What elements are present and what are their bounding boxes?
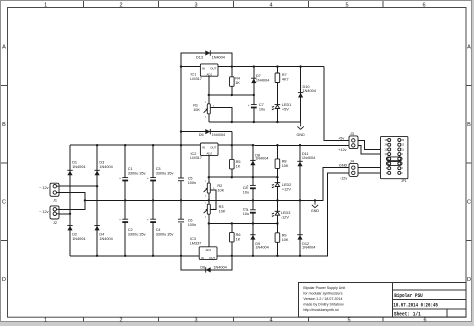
svg-text:1N4004: 1N4004 — [212, 56, 225, 60]
frame row labels right — [467, 45, 471, 284]
frame column ticks bottom — [84, 317, 384, 321]
wire R2/R3 wiper link — [210, 190, 216, 210]
svg-text:JP1: JP1 — [401, 179, 407, 183]
svg-text:LM337: LM337 — [190, 241, 202, 245]
wire D3/D4 column — [96, 145, 98, 256]
svg-text:10K: 10K — [217, 189, 224, 193]
capacitor C2 — [122, 219, 128, 223]
svg-text:ADJ: ADJ — [206, 72, 212, 76]
wire R8/LED2/LED3/R9 column — [276, 145, 278, 256]
diode D4 — [94, 226, 99, 231]
ground (center rail) — [311, 200, 320, 213]
wire -12V output rail to J4 — [217, 173, 353, 256]
svg-text:C: C — [2, 200, 6, 206]
svg-text:4: 4 — [269, 318, 272, 324]
svg-text:R7: R7 — [282, 73, 287, 77]
svg-text:C6: C6 — [188, 218, 193, 222]
title block — [299, 283, 467, 318]
capacitor C4 — [150, 219, 156, 223]
svg-text:C2: C2 — [128, 228, 133, 232]
svg-text:3300u 35v: 3300u 35v — [156, 232, 174, 236]
svg-text:C1: C1 — [128, 167, 133, 171]
potentiometer R1 — [204, 104, 211, 114]
svg-text:3300u 35v: 3300u 35v — [156, 172, 174, 176]
resistor R5 — [230, 159, 235, 169]
svg-text:C5: C5 — [188, 177, 193, 181]
svg-text:1N4004: 1N4004 — [303, 89, 316, 93]
wire unregulated positive rail — [70, 144, 200, 146]
svg-text:IN: IN — [202, 66, 205, 70]
svg-text:1N4004: 1N4004 — [99, 165, 112, 169]
resistor R7 — [275, 73, 280, 83]
svg-text:1N4004: 1N4004 — [99, 237, 112, 241]
ground (top section) — [296, 122, 305, 137]
svg-text:C4: C4 — [156, 228, 161, 232]
capacitor C3 — [150, 178, 156, 182]
diode D11 — [297, 161, 302, 166]
wire ADJ node horizontal — [209, 94, 254, 96]
wire C3/C4 column — [152, 145, 154, 256]
svg-text:C8: C8 — [243, 186, 248, 190]
wire D1/D2 column — [69, 145, 71, 256]
svg-text:for modular synthesizers: for modular synthesizers — [303, 292, 342, 296]
LED2 — [272, 183, 281, 189]
svg-text:OUT: OUT — [210, 145, 216, 149]
svg-text:LED3: LED3 — [281, 211, 291, 215]
svg-text:GND: GND — [339, 164, 348, 168]
connector J4 — [349, 160, 358, 177]
wire C5/C6 column — [181, 53, 232, 270]
wire IC2 ADJ column through pots — [208, 155, 210, 246]
svg-text:1N4004: 1N4004 — [302, 245, 315, 249]
svg-text:-12V: -12V — [281, 216, 289, 220]
op-amp regulator IC3 LM337 — [190, 237, 217, 260]
frame row labels left — [2, 45, 6, 284]
svg-text:+12V: +12V — [282, 187, 291, 191]
svg-text:D: D — [467, 277, 471, 283]
svg-text:A: A — [2, 45, 6, 51]
svg-text:+: + — [147, 176, 149, 180]
svg-text:J4: J4 — [350, 160, 354, 164]
wire D8/C8/C9/D9 column — [252, 145, 254, 256]
svg-text:~ 12v: ~ 12v — [39, 210, 48, 214]
svg-text:4: 4 — [269, 2, 272, 8]
wire D10 column — [300, 67, 302, 122]
svg-text:D6: D6 — [200, 265, 205, 269]
svg-text:R8: R8 — [282, 160, 287, 164]
svg-text:GND: GND — [311, 209, 320, 213]
wire IC1 input — [181, 66, 200, 68]
svg-text:1K: 1K — [236, 165, 241, 169]
diode D2 — [67, 226, 72, 231]
svg-text:6: 6 — [422, 2, 425, 8]
svg-text:3300u 35v: 3300u 35v — [128, 232, 146, 236]
wire +12V ADJ rail — [209, 176, 278, 178]
svg-text:3: 3 — [194, 318, 197, 324]
svg-text:2: 2 — [119, 2, 122, 8]
svg-text:J1: J1 — [53, 199, 57, 203]
wire R6 column — [231, 224, 233, 256]
capacitor C6 — [178, 219, 184, 222]
svg-text:GND: GND — [296, 133, 305, 137]
svg-text:1K: 1K — [236, 238, 241, 242]
diode D9 — [250, 235, 255, 240]
svg-text:10K: 10K — [219, 210, 226, 214]
svg-text:ADJ: ADJ — [205, 248, 211, 252]
wire +5v feed to J3 — [324, 67, 353, 141]
wire R1 bottom — [208, 114, 210, 122]
potentiometer R3 — [204, 204, 211, 214]
svg-text:D13: D13 — [196, 56, 203, 60]
frame row ticks left — [1, 86, 8, 241]
svg-text:J3: J3 — [350, 132, 354, 136]
svg-text:R9: R9 — [282, 234, 287, 238]
svg-text:C3: C3 — [156, 167, 161, 171]
diode D3 — [94, 170, 99, 175]
diode D6 — [206, 267, 211, 272]
wire R5 column — [231, 132, 233, 178]
svg-text:C7: C7 — [259, 103, 264, 107]
wire D13 bypass loop — [181, 53, 232, 67]
svg-text:+: + — [119, 218, 121, 222]
wire D7/C7 column — [253, 67, 255, 122]
wire R7/LED1 column — [276, 67, 278, 122]
svg-text:ADJ: ADJ — [206, 152, 212, 156]
svg-text:http://modularsynth.ru/: http://modularsynth.ru/ — [303, 308, 339, 312]
svg-text:Bipolar Power Supply Unit: Bipolar Power Supply Unit — [303, 286, 345, 290]
svg-text:1N4004: 1N4004 — [255, 245, 268, 249]
wire J1 pin1 to bridge — [59, 185, 97, 187]
svg-text:R6: R6 — [236, 233, 241, 237]
svg-text:Bipolar PSU: Bipolar PSU — [394, 292, 423, 299]
diode D12 — [297, 235, 302, 240]
svg-text:~ 12v: ~ 12v — [39, 186, 48, 190]
capacitor C7 — [251, 105, 257, 109]
svg-text:3300u 35v: 3300u 35v — [128, 172, 146, 176]
svg-text:IN: IN — [201, 256, 204, 260]
svg-text:R2: R2 — [217, 184, 222, 188]
svg-text:10u: 10u — [243, 212, 249, 216]
diode D7 — [251, 78, 256, 83]
svg-text:made by Dmitry Shtatnov: made by Dmitry Shtatnov — [303, 302, 344, 306]
svg-text:R3: R3 — [219, 205, 224, 209]
svg-text:1N4004: 1N4004 — [72, 165, 85, 169]
svg-text:OUT: OUT — [210, 66, 216, 70]
resistor R8 — [275, 159, 280, 169]
svg-text:B: B — [2, 122, 6, 128]
svg-text:C9: C9 — [243, 208, 248, 212]
resistor R6 — [230, 232, 235, 242]
svg-text:10u: 10u — [259, 107, 265, 111]
svg-text:100n: 100n — [188, 181, 196, 185]
svg-text:10K: 10K — [193, 108, 200, 112]
wire J4 pin1 to JP1 — [358, 167, 390, 169]
diode D10 — [298, 93, 303, 98]
svg-text:R1: R1 — [193, 104, 198, 108]
svg-text:R5: R5 — [236, 160, 241, 164]
svg-text:+: + — [119, 176, 121, 180]
potentiometer R2 — [204, 183, 211, 193]
svg-text:1N4004: 1N4004 — [212, 133, 225, 137]
svg-text:LED2: LED2 — [282, 183, 292, 187]
svg-text:LED1: LED1 — [282, 103, 292, 107]
svg-text:+: + — [147, 218, 149, 222]
op-amp regulator IC2 LM317 — [190, 143, 218, 160]
svg-text:10K: 10K — [282, 164, 289, 168]
frame column labels bottom — [44, 318, 426, 324]
capacitor C1 — [122, 178, 128, 182]
svg-text:A: A — [467, 45, 471, 51]
svg-text:1: 1 — [44, 2, 47, 8]
svg-text:1N4004: 1N4004 — [72, 237, 85, 241]
wire R4 column — [231, 67, 233, 95]
svg-text:1N4004: 1N4004 — [255, 156, 268, 160]
wire J3 pin1 to JP1 — [357, 140, 390, 149]
svg-text:Sheet: 1/1: Sheet: 1/1 — [394, 311, 421, 317]
svg-text:6: 6 — [423, 318, 426, 324]
capacitor C8 — [250, 185, 256, 189]
svg-text:5: 5 — [345, 2, 348, 8]
svg-text:+: + — [248, 103, 250, 107]
svg-text:LM317: LM317 — [190, 156, 202, 160]
svg-text:OUT: OUT — [209, 256, 215, 260]
wire R1 wiper — [210, 108, 232, 122]
capacitor C5 — [178, 178, 184, 181]
svg-text:10K: 10K — [282, 238, 289, 242]
wire IC1 +5V output rail — [218, 66, 324, 68]
wire top section ground rail — [209, 121, 301, 123]
svg-text:100n: 100n — [188, 223, 196, 227]
svg-text:J2: J2 — [53, 221, 57, 225]
svg-text:IC3: IC3 — [190, 237, 196, 241]
resistor R9 — [275, 233, 280, 243]
svg-text:3: 3 — [194, 2, 197, 8]
svg-text:+12v: +12v — [338, 148, 346, 152]
svg-text:5: 5 — [347, 318, 350, 324]
svg-text:B: B — [467, 122, 471, 128]
wire unregulated negative rail — [70, 255, 199, 257]
wire D5 bypass loop — [181, 131, 232, 133]
svg-text:IN: IN — [202, 145, 205, 149]
wire +12V output rail — [218, 144, 353, 146]
frame row ticks right — [466, 86, 472, 241]
svg-text:IC1: IC1 — [191, 73, 197, 77]
pin header JP1 — [381, 136, 408, 182]
LED1 — [272, 105, 281, 111]
wire J1 pin2 / J2 pin1 to 0V — [59, 193, 85, 210]
capacitor C9 — [250, 210, 256, 214]
svg-text:18.07.2014 0:26:45: 18.07.2014 0:26:45 — [393, 302, 438, 308]
frame column ticks top — [84, 1, 384, 8]
op-amp regulator IC1 LM317 — [190, 64, 218, 81]
wire D11/D12 column — [299, 145, 301, 256]
wire J3 pin2 to JP1 — [357, 145, 390, 154]
svg-text:Version 1.2 / 18.07.2014: Version 1.2 / 18.07.2014 — [303, 297, 342, 301]
wire J4 pin2 to JP1 — [358, 172, 390, 174]
svg-text:4K7: 4K7 — [282, 78, 289, 82]
diode D1 — [67, 170, 72, 175]
connector J3 — [349, 132, 358, 149]
svg-text:1K: 1K — [235, 81, 240, 85]
svg-text:+5V: +5V — [282, 107, 289, 111]
svg-text:LM317: LM317 — [190, 77, 202, 81]
svg-text:-12v: -12v — [340, 177, 347, 181]
frame column labels top — [44, 2, 425, 8]
wire C1/C2 column — [124, 145, 126, 256]
connector J2 — [39, 206, 59, 225]
svg-text:1N4004: 1N4004 — [256, 78, 269, 82]
svg-text:+5v: +5v — [338, 136, 344, 140]
wire IC1 ADJ — [208, 76, 210, 104]
resistor R4 — [230, 77, 235, 87]
diode D5 — [205, 129, 210, 134]
svg-text:2: 2 — [119, 318, 122, 324]
svg-text:D: D — [2, 277, 6, 283]
wire center 0V rail — [85, 168, 353, 201]
wire J2 pin2 to bridge — [59, 213, 70, 215]
svg-text:1: 1 — [44, 318, 47, 324]
svg-text:R4: R4 — [235, 76, 240, 80]
wire -12V ADJ rail — [209, 223, 278, 225]
svg-text:1N4004: 1N4004 — [302, 156, 315, 160]
connector J1 — [39, 183, 59, 202]
svg-text:1N4004: 1N4004 — [213, 265, 226, 269]
LED3 — [272, 211, 281, 217]
svg-text:10u: 10u — [243, 191, 249, 195]
diode D8 — [250, 160, 255, 165]
svg-text:C: C — [467, 200, 471, 206]
svg-text:D5: D5 — [199, 133, 204, 137]
diode D13 — [205, 50, 210, 55]
title block notes — [303, 286, 345, 312]
